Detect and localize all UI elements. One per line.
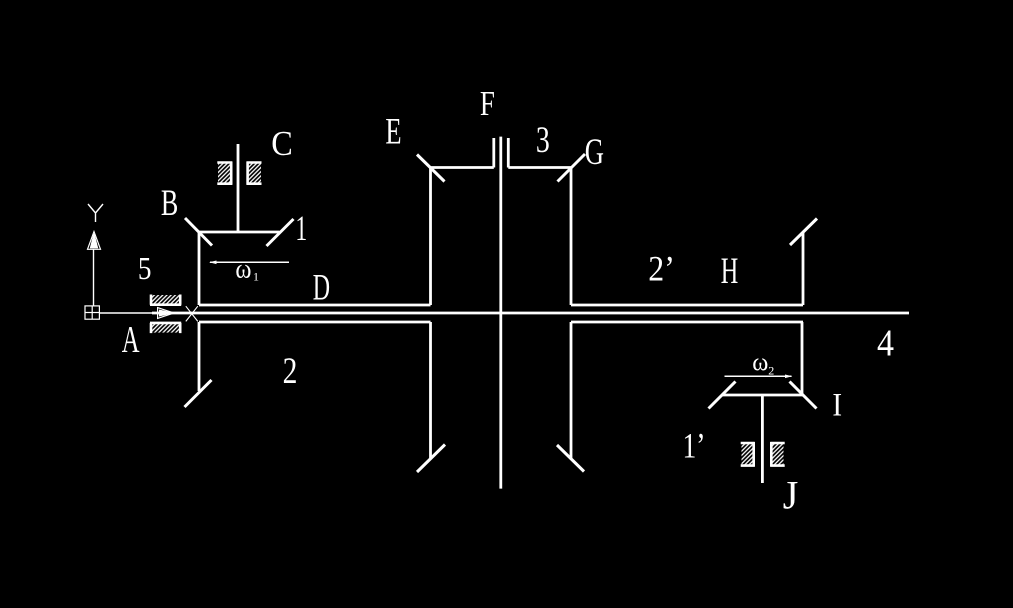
gear 1' mesh slash I bbox=[790, 382, 817, 409]
gear wheel left vertical lower bbox=[429, 322, 432, 458]
gear 1' rim line bbox=[722, 394, 803, 397]
omega2 arrowhead bbox=[785, 375, 792, 379]
gear 3 top horizontal right bbox=[508, 166, 571, 169]
svg-text:2’: 2’ bbox=[648, 249, 675, 289]
bearing on shaft C left block bbox=[217, 162, 232, 185]
gear wheel right vertical lower bbox=[570, 322, 573, 458]
shaft F flank line left bbox=[492, 138, 495, 168]
svg-text:F: F bbox=[480, 84, 495, 123]
shaft 2' lower outline bbox=[571, 321, 803, 324]
svg-text:2: 2 bbox=[768, 363, 774, 377]
shaft D upper outline bbox=[199, 304, 431, 307]
svg-text:C: C bbox=[271, 124, 293, 163]
gear H arm vertical bbox=[802, 232, 805, 306]
mesh slash E bbox=[417, 155, 445, 182]
shaft F central vertical bbox=[499, 137, 502, 489]
bearing 5 bottom block bbox=[150, 323, 181, 333]
ucs Y-axis arrowhead bbox=[88, 232, 101, 250]
main shaft axis line bbox=[152, 312, 909, 315]
svg-text:3: 3 bbox=[536, 119, 550, 160]
gear 3 top horizontal left bbox=[431, 166, 494, 169]
ucs Y-letter glyph bbox=[88, 204, 103, 222]
shaft J vertical bbox=[761, 395, 764, 483]
omega1 rotation arrow line bbox=[210, 261, 289, 263]
gear 1' mesh slash left bbox=[709, 382, 736, 409]
shaft C vertical bbox=[237, 144, 240, 232]
gear wheel left vertical upper bbox=[429, 168, 432, 306]
gear 2 arm vertical bbox=[198, 322, 201, 391]
ucs origin box bbox=[85, 306, 99, 319]
svg-text:1: 1 bbox=[253, 270, 259, 284]
carrier arm right vertical bbox=[801, 322, 804, 395]
svg-text:D: D bbox=[313, 267, 330, 308]
svg-text:E: E bbox=[385, 111, 401, 152]
svg-text:2: 2 bbox=[283, 351, 298, 392]
svg-text:G: G bbox=[585, 132, 604, 173]
gear 1 mesh slash B bbox=[185, 218, 212, 246]
mesh slash lower left of center bbox=[417, 445, 445, 473]
shaft D lower outline bbox=[199, 321, 431, 324]
gear 1 rim line bbox=[199, 231, 280, 234]
svg-text:5: 5 bbox=[138, 250, 152, 286]
carrier arm upper left vertical bbox=[198, 232, 201, 305]
svg-text:A: A bbox=[122, 319, 140, 361]
gear 1 mesh slash right bbox=[267, 219, 294, 246]
svg-text:1’: 1’ bbox=[683, 425, 706, 465]
bearing 5 top block bbox=[150, 295, 181, 305]
shaft F flank line right bbox=[507, 138, 510, 168]
svg-text:1: 1 bbox=[295, 208, 307, 248]
svg-text:B: B bbox=[161, 182, 178, 223]
gear 2 mesh slash bbox=[185, 380, 212, 407]
shaft 2' upper outline bbox=[571, 304, 803, 307]
ucs Y-axis line bbox=[93, 249, 95, 306]
svg-text:J: J bbox=[783, 473, 799, 518]
svg-text:I: I bbox=[832, 388, 842, 424]
svg-text:ω: ω bbox=[235, 254, 251, 284]
svg-text:H: H bbox=[721, 251, 739, 292]
svg-text:4: 4 bbox=[877, 323, 894, 365]
omega2 rotation arrow line bbox=[725, 375, 792, 377]
ucs X-axis line bbox=[99, 312, 157, 314]
gear H mesh slash bbox=[790, 219, 817, 246]
shaft end point X marker bbox=[186, 306, 198, 321]
gear wheel right vertical upper bbox=[570, 168, 573, 306]
mesh slash lower right of center bbox=[557, 445, 584, 472]
bearing on shaft J right block bbox=[770, 442, 784, 467]
ucs X-axis arrowhead bbox=[158, 308, 174, 319]
bearing on shaft J left block bbox=[741, 442, 755, 467]
mesh slash G bbox=[558, 154, 586, 182]
svg-text:ω: ω bbox=[752, 350, 768, 377]
omega1 arrowhead bbox=[209, 261, 217, 265]
bearing on shaft C right block bbox=[247, 162, 262, 185]
